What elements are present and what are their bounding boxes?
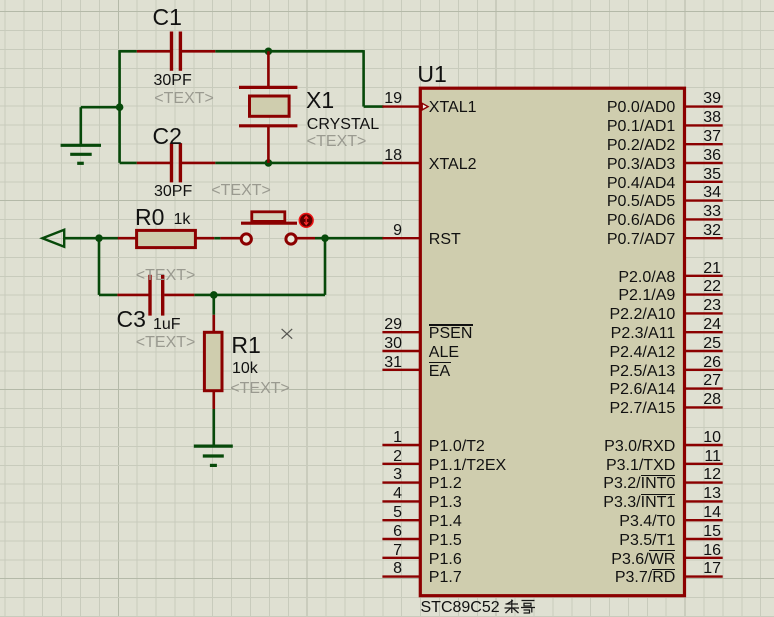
value C2 30PF [154, 184, 192, 200]
pin 16 stub [685, 557, 723, 559]
capacitor C2 [172, 143, 181, 182]
wire down to C3 row [98, 238, 101, 295]
pin number 29 [362, 317, 402, 333]
wire into XTAL1 stub [364, 105, 384, 108]
X1 TEXT placeholder [307, 134, 367, 150]
wire C2 right to XTAL2 [215, 162, 383, 165]
pin 7 stub [382, 557, 420, 559]
junction node C1-XTAL top [265, 48, 273, 56]
pin number 15 [681, 524, 721, 540]
label X1 [306, 89, 334, 112]
crystal X1 [239, 87, 297, 125]
pin number 22 [681, 279, 721, 295]
R1 TEXT placeholder [230, 381, 290, 397]
lead R1 bottom [213, 391, 216, 410]
pin 36 stub [685, 162, 723, 164]
R0 TEXT placeholder [136, 268, 196, 284]
wire R1 to ground2 [213, 409, 216, 447]
pin name P2.6/A14 [495, 382, 675, 398]
pin number 14 [681, 505, 721, 521]
lead X1 top [267, 51, 270, 87]
pin 12 stub [685, 481, 723, 483]
pin name ALE [429, 345, 459, 361]
label C3 [117, 308, 146, 331]
pin 37 stub [685, 143, 723, 145]
pin name P1.2 [429, 476, 462, 492]
pin 30 stub [382, 350, 420, 352]
wire C1 left to corner [120, 50, 137, 53]
pin number 25 [681, 336, 721, 352]
label 朱哥 (chip title suffix) [505, 600, 536, 614]
lead X1 bottom [267, 126, 270, 163]
pin name P1.7 [429, 570, 462, 586]
pin name P2.1/A9 [495, 288, 675, 304]
pin number 28 [681, 392, 721, 408]
pin name P3.1/TXD [495, 458, 675, 474]
pin number 21 [681, 261, 721, 277]
pin name P3.3/INT1 [495, 495, 675, 511]
pin name XTAL2 [429, 157, 477, 173]
pin number 5 [362, 505, 402, 521]
label R1 [231, 334, 260, 357]
pin 8 stub [382, 575, 420, 577]
pin 34 stub [685, 199, 723, 201]
wire ground1 stem [80, 107, 83, 145]
pin 9 stub [382, 237, 420, 239]
pin 13 stub [685, 500, 723, 502]
lead C1 left [137, 50, 170, 53]
pin number 13 [681, 486, 721, 502]
pin 14 stub [685, 519, 723, 521]
overline WR [649, 550, 676, 551]
pin 15 stub [685, 538, 723, 540]
pin 22 stub [685, 293, 723, 295]
chip U1 body [420, 88, 684, 596]
pin name P2.3/A11 [495, 326, 675, 342]
pin number 39 [681, 91, 721, 107]
ground bottom (R1) [194, 446, 233, 465]
pin 24 stub [685, 331, 723, 333]
pin 27 stub [685, 387, 723, 389]
pin name P2.2/A10 [495, 307, 675, 323]
pin number 16 [681, 543, 721, 559]
pin 10 stub [685, 444, 723, 446]
capacitor C3 [150, 275, 163, 316]
pin 18 stub [382, 162, 420, 164]
overline PSEN [429, 324, 473, 325]
lead C2 right [182, 162, 215, 165]
label C2 [153, 125, 182, 148]
origin cross marker [282, 329, 293, 339]
lead R1 top [213, 315, 216, 333]
pin number 36 [681, 148, 721, 164]
pin name P1.4 [429, 514, 462, 530]
pin name P0.0/AD0 [495, 100, 675, 116]
overline INT0 [641, 475, 676, 476]
label C1 [153, 6, 182, 29]
pin name P3.4/T0 [495, 514, 675, 530]
pin 4 stub [382, 500, 420, 502]
value C3 1uF [153, 317, 181, 333]
pin 21 stub [685, 275, 723, 277]
overline RD [652, 569, 675, 570]
pin number 35 [681, 167, 721, 183]
pin name P0.3/AD3 [495, 157, 675, 173]
pin number 26 [681, 355, 721, 371]
pin number 8 [362, 561, 402, 577]
pin number 6 [362, 524, 402, 540]
pin name P1.6 [429, 552, 462, 568]
pin name P0.6/AD6 [495, 213, 675, 229]
wire to C3 left [99, 294, 117, 297]
lead R0 right [195, 237, 215, 240]
junction node C2-XTAL bottom [265, 159, 273, 167]
pin number 34 [681, 185, 721, 201]
pin number 30 [362, 336, 402, 352]
wire C1 right to corner [215, 50, 363, 53]
pushbutton terminal left [241, 234, 251, 244]
pin number 7 [362, 543, 402, 559]
pin name P2.4/A12 [495, 345, 675, 361]
pin number 27 [681, 373, 721, 389]
pin 39 stub [685, 105, 723, 107]
value R1 10k [232, 361, 258, 377]
wire vertical left riser [118, 50, 121, 163]
pin name P1.1/T2EX [429, 458, 506, 474]
pin number 23 [681, 298, 721, 314]
pin 23 stub [685, 312, 723, 314]
pin 2 stub [382, 463, 420, 465]
pin 1 stub [382, 444, 420, 446]
pin number 19 [362, 91, 402, 107]
pin number 38 [681, 110, 721, 126]
pin 25 stub [685, 350, 723, 352]
pin 6 stub [382, 538, 420, 540]
pin 28 stub [685, 406, 723, 408]
pin number 32 [681, 223, 721, 239]
pin name P3.0/RXD [495, 439, 675, 455]
lead R0 left [118, 237, 138, 240]
junction node button-RST [321, 234, 329, 242]
pin name P1.0/T2 [429, 439, 485, 455]
pin 38 stub [685, 124, 723, 126]
pin number 11 [681, 449, 721, 465]
pin number 33 [681, 204, 721, 220]
pin name PSEN [429, 326, 473, 342]
pin number 9 [362, 223, 402, 239]
pin number 18 [362, 148, 402, 164]
XTAL1 clock arrow [422, 103, 428, 110]
label R0 [135, 206, 164, 229]
pin number 3 [362, 467, 402, 483]
value R0 1k [174, 212, 191, 228]
pin 11 stub [685, 463, 723, 465]
pin 5 stub [382, 519, 420, 521]
overline INT1 [641, 494, 676, 495]
lead C2 left [137, 162, 170, 165]
pin name P3.6/WR [495, 552, 675, 568]
wire C2 left [120, 162, 137, 165]
C3 TEXT placeholder [136, 335, 196, 351]
pin name P2.0/A8 [495, 270, 675, 286]
pushbutton terminal right [286, 234, 296, 244]
capacitor C1 [172, 32, 181, 71]
pin 29 stub [382, 331, 420, 333]
pin name P0.4/AD4 [495, 176, 675, 192]
wire RST junction down [324, 238, 327, 295]
pin name P2.5/A13 [495, 364, 675, 380]
resistor R1 [204, 332, 222, 390]
pin name P3.2/INT0 [495, 476, 675, 492]
pin number 2 [362, 449, 402, 465]
lead button left [220, 237, 240, 240]
overline EA [429, 362, 450, 363]
junction node terminal-C3 [95, 234, 103, 242]
pin name XTAL1 [429, 100, 477, 116]
lead C3 right [164, 294, 194, 297]
pin name P0.2/AD2 [495, 138, 675, 154]
pin name RST [429, 232, 461, 248]
pin name P3.7/RD [495, 570, 675, 586]
pin number 10 [681, 430, 721, 446]
pin 17 stub [685, 575, 723, 577]
pin name EA [429, 364, 450, 380]
label U1 [417, 63, 446, 86]
pin number 31 [362, 355, 402, 371]
pushbutton blade [241, 222, 297, 225]
pin 3 stub [382, 481, 420, 483]
pin name P0.7/AD7 [495, 232, 675, 248]
C2 TEXT placeholder [211, 183, 271, 199]
wire C3 right run [194, 294, 325, 297]
pushbutton cap [252, 212, 285, 222]
chip type STC89C52 [421, 600, 500, 616]
pin 31 stub [382, 369, 420, 371]
pin name P0.1/AD1 [495, 119, 675, 135]
pin number 17 [681, 561, 721, 577]
pin number 4 [362, 486, 402, 502]
lead C3 left [117, 294, 148, 297]
C1 TEXT placeholder [154, 91, 214, 107]
pin 19 stub [382, 105, 420, 107]
ground top-left [61, 145, 101, 163]
terminal arrow (reset input) [42, 230, 64, 247]
value X1 CRYSTAL [307, 117, 379, 133]
resistor R0 [137, 230, 196, 247]
pin 26 stub [685, 369, 723, 371]
wire junction to R1 [213, 295, 216, 315]
pin number 12 [681, 467, 721, 483]
wire terminal to R0 [64, 237, 118, 240]
pin number 37 [681, 129, 721, 145]
pin 35 stub [685, 181, 723, 183]
junction node ground1 [116, 103, 124, 111]
pin name P1.3 [429, 495, 462, 511]
pin name P2.7/A15 [495, 401, 675, 417]
wire vertical to XTAL1 [362, 50, 365, 107]
lead C1 right [182, 50, 215, 53]
pin number 24 [681, 317, 721, 333]
pin 32 stub [685, 237, 723, 239]
pin number 1 [362, 430, 402, 446]
lead button right [297, 237, 315, 240]
value C1 30PF [154, 73, 192, 89]
junction node C3-R1 [210, 291, 218, 299]
wire button to RST [315, 237, 384, 240]
wire R0 to button [214, 237, 220, 240]
wire ground1 branch [81, 106, 121, 109]
pushbutton actuator marker [299, 214, 313, 228]
pin name P3.5/T1 [495, 533, 675, 549]
pin name P1.5 [429, 533, 462, 549]
pin name P0.5/AD5 [495, 194, 675, 210]
pin 33 stub [685, 218, 723, 220]
